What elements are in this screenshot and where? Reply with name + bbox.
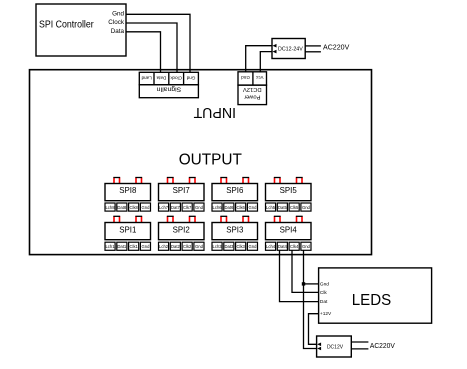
svg-text:Gnd: Gnd [195,205,204,210]
svg-text:Data: Data [111,28,125,35]
svg-text:INPUT: INPUT [193,104,236,120]
connector Power DC12V (rotated 180) [238,72,267,105]
junction: Gnd node [302,282,305,285]
connector SPI7 [159,178,205,212]
svg-text:Vcc: Vcc [255,75,263,80]
svg-text:Data: Data [156,75,166,80]
AC220V plug (bottom) [351,341,395,350]
svg-text:Lch8: Lch8 [105,205,115,210]
svg-text:SPI2: SPI2 [173,226,190,235]
connector SPI2 [159,216,205,250]
svg-text:Dat8: Dat8 [117,205,127,210]
svg-text:SignalIn: SignalIn [156,86,181,93]
svg-text:Gnd: Gnd [186,75,195,80]
connector SPI3 [212,216,258,250]
svg-text:Clk4: Clk4 [290,244,299,249]
svg-text:Lch7: Lch7 [159,205,169,210]
svg-text:Lch4: Lch4 [266,244,276,249]
connector SPI6 [212,178,258,212]
svg-text:LEDS: LEDS [352,292,392,309]
svg-text:+12V: +12V [320,311,332,317]
wire Data: controller to SignalIn pin Data [126,32,161,73]
svg-text:Dat4: Dat4 [278,244,288,249]
svg-text:SPI7: SPI7 [173,186,190,195]
AC220V plug (top) [305,42,349,52]
wire Gnd: SPI4 to LEDS and DC12V adapter [304,250,317,348]
connector SPI8 [105,178,151,212]
svg-text:Land: Land [141,75,152,80]
svg-text:Gnd: Gnd [320,282,329,288]
SPI Controller U1 [36,4,126,56]
svg-text:Gnd: Gnd [241,75,250,80]
svg-text:Clk5: Clk5 [290,205,299,210]
svg-text:Power: Power [244,93,261,99]
svg-text:Lch6: Lch6 [213,205,223,210]
connector SPI5 [266,178,312,212]
svg-text:Dat1: Dat1 [117,244,127,249]
wire +12V: LEDS to DC12V adapter [309,314,319,345]
svg-text:Clk: Clk [320,290,328,296]
svg-text:SPI6: SPI6 [226,186,244,195]
svg-text:Clk3: Clk3 [237,244,246,249]
svg-text:Clk1: Clk1 [130,244,139,249]
main controller box (INPUT/OUTPUT unit) [30,70,372,255]
svg-text:Dat5: Dat5 [278,205,288,210]
svg-text:Gnd: Gnd [142,244,151,249]
svg-text:SPI3: SPI3 [226,226,244,235]
wire Vcc: Power connector to adapter DC12-24V [260,52,271,73]
wire Clk: SPI4 to LEDS [292,250,319,292]
svg-text:DC12V: DC12V [327,345,344,351]
svg-text:Gnd: Gnd [249,205,258,210]
svg-text:SPI4: SPI4 [280,226,298,235]
wire Clock: controller to SignalIn pin Clock [126,23,177,73]
LEDS box [319,268,432,323]
svg-text:Gnd: Gnd [112,10,124,17]
svg-text:Gnd: Gnd [142,205,151,210]
svg-text:OUTPUT: OUTPUT [179,152,243,169]
svg-text:AC220V: AC220V [323,42,349,51]
wire Gnd: Power connector to adapter DC12-24V [246,46,272,73]
svg-text:Lch2: Lch2 [159,244,169,249]
svg-text:AC220V: AC220V [370,341,395,350]
svg-text:Clk6: Clk6 [237,205,246,210]
svg-text:Lch3: Lch3 [213,244,223,249]
svg-text:SPI Controller: SPI Controller [39,20,94,31]
svg-text:SPI5: SPI5 [280,186,298,195]
connector SPI4 [266,216,312,250]
svg-text:Gnd: Gnd [302,244,311,249]
svg-text:DC12-24V: DC12-24V [278,46,303,52]
svg-text:Gnd: Gnd [302,205,311,210]
svg-text:Gnd: Gnd [249,244,258,249]
wire Gnd: controller to SignalIn pin Gnd [126,14,190,72]
svg-text:Dat7: Dat7 [171,205,181,210]
svg-text:Gnd: Gnd [195,244,204,249]
svg-text:Clk7: Clk7 [183,205,192,210]
svg-text:Clock: Clock [170,75,182,80]
svg-text:SPI1: SPI1 [119,226,136,235]
svg-text:Clk2: Clk2 [183,244,192,249]
svg-text:DC12V: DC12V [243,86,262,92]
svg-text:Clk8: Clk8 [130,205,139,210]
svg-text:Dat2: Dat2 [171,244,181,249]
wire Dat: SPI4 to LEDS [280,250,319,301]
svg-text:Clock: Clock [108,19,125,26]
svg-text:Lch1: Lch1 [105,244,115,249]
svg-text:Lch5: Lch5 [266,205,276,210]
connector SPI1 [105,216,151,250]
svg-text:SPI8: SPI8 [119,186,137,195]
svg-text:Dat: Dat [320,299,328,305]
power adapter DC12-24V [272,39,305,59]
connector SignalIn (rotated 180) [139,72,198,97]
power adapter DC12V [317,336,352,357]
svg-text:Dat3: Dat3 [224,244,234,249]
svg-text:Dat6: Dat6 [224,205,234,210]
